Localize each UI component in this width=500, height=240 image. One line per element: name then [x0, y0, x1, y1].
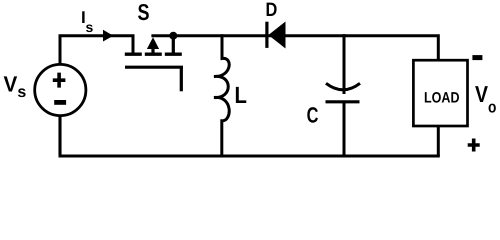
MOSFET source stub — [165, 53, 182, 56]
current arrow Is — [103, 30, 113, 42]
output minus mark — [472, 55, 482, 60]
bottom rail with source return — [59, 116, 440, 157]
svg-text:C: C — [307, 103, 319, 128]
diode D anode triangle — [268, 22, 285, 49]
MOSFET source lead — [172, 36, 175, 55]
wire load to bottom rail — [437, 126, 440, 156]
minus terminal mark — [54, 100, 66, 105]
junction dot — [169, 32, 177, 40]
capacitor straight plate — [326, 100, 360, 103]
wire capacitor to rail — [343, 102, 346, 156]
svg-text:LOAD: LOAD — [424, 90, 460, 107]
MOSFET gate bar — [125, 66, 183, 69]
svg-text:V: V — [4, 72, 18, 97]
svg-text:o: o — [488, 99, 496, 117]
wire switch to output corner — [151, 36, 438, 61]
output plus mark — [468, 139, 480, 152]
LOAD box — [413, 60, 467, 126]
svg-text:D: D — [266, 0, 278, 21]
svg-text:s: s — [17, 84, 26, 101]
MOSFET drain stub — [125, 53, 142, 56]
MOSFET middle stub — [145, 53, 162, 56]
svg-text:V: V — [475, 81, 489, 107]
plus terminal mark — [53, 73, 66, 88]
svg-text:S: S — [138, 0, 150, 25]
capacitor curved plate — [326, 83, 360, 90]
svg-text:L: L — [235, 82, 247, 108]
inductor L — [214, 34, 229, 156]
MOSFET body arrow — [151, 48, 154, 54]
wire rail to capacitor — [343, 34, 346, 94]
voltage source Vs — [35, 64, 86, 115]
svg-text:s: s — [86, 19, 94, 35]
MOSFET gate lead — [180, 67, 183, 91]
diode D cathode bar — [265, 22, 268, 48]
wire source top to switch drain — [60, 36, 133, 65]
